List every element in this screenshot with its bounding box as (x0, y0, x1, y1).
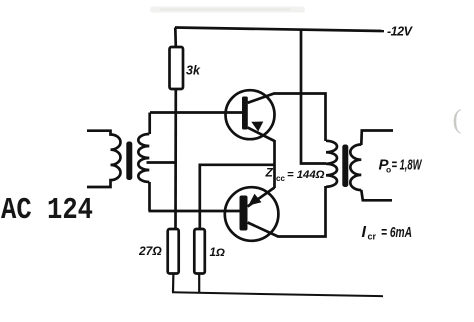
transformer T2 core (342, 145, 348, 188)
transistor Q1 circle (226, 90, 275, 139)
resistor R1 3k body (170, 47, 184, 89)
svg-text:27Ω: 27Ω (138, 244, 162, 258)
svg-text:AC 124: AC 124 (1, 193, 93, 228)
resistor R2 27ohm body (168, 229, 179, 274)
wire 3k top lead (174, 28, 177, 48)
svg-text:= 1,8W: = 1,8W (392, 157, 423, 174)
wire secondary top terminal (361, 131, 393, 146)
wire secondary bottom terminal (361, 190, 392, 200)
svg-text:-12V: -12V (387, 25, 414, 39)
scan artifact top smudge (150, 7, 305, 13)
svg-text:= 144Ω: = 144Ω (287, 169, 325, 181)
svg-text:(: ( (453, 104, 462, 134)
wire 1ohm bottom lead (198, 274, 200, 293)
wire emitter bus vertical (273, 140, 276, 188)
svg-text:1Ω: 1Ω (210, 247, 225, 259)
transformer T1 input secondary coil (138, 134, 149, 182)
transformer T1 input primary coil (87, 131, 121, 187)
wire base line Q2 (secondary bottom to Q2 base) (149, 182, 241, 211)
transistor Q1 collector (248, 94, 326, 142)
transistor Q2 circle (225, 187, 279, 241)
wire bias line (3k bottom to 27ohm top) (174, 89, 177, 229)
transformer T1 core (126, 142, 132, 181)
wire center tap output (-12V to primary CT) (301, 30, 326, 164)
wire 27ohm bottom lead (172, 274, 175, 293)
wire bottom ground rail (172, 292, 383, 296)
svg-text:o: o (386, 165, 391, 175)
resistor R3 1ohm body (194, 229, 205, 274)
transistor Q1 base bar (242, 97, 248, 130)
wire secondary-top vertical (148, 113, 151, 135)
wire base line Q1 (secondary top to Q1 base) (150, 111, 242, 114)
svg-text:Z: Z (265, 166, 274, 180)
transistor Q2 emitter arrow (248, 194, 261, 206)
svg-text:= 6mA: = 6mA (381, 224, 412, 241)
svg-text:3k: 3k (186, 64, 201, 78)
wire top supply rail (175, 28, 384, 32)
svg-text:cc: cc (276, 174, 285, 183)
svg-text:I: I (362, 224, 367, 241)
wire emitter to 1ohm (200, 165, 275, 229)
svg-text:cr: cr (368, 232, 377, 242)
transistor Q2 collector (248, 186, 326, 237)
transistor Q2 base bar (240, 196, 248, 231)
transformer T2 output secondary coil (350, 145, 361, 191)
transistor Q1 emitter (248, 128, 275, 142)
transistor Q1 emitter arrow (251, 122, 263, 132)
transformer T2 output primary coil (326, 141, 337, 187)
wire center tap input (147, 161, 177, 164)
transistor Q2 emitter (248, 188, 275, 207)
